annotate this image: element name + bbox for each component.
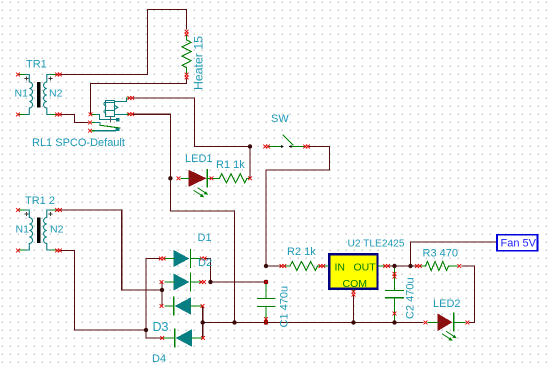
wire minus rail	[203, 322, 423, 324]
junction Fan 5V tap node	[408, 264, 412, 268]
pin marker D3 anode	[201, 304, 204, 307]
pin marker C2 top	[393, 272, 396, 278]
wire TR1 secondary bottom to relay NO contact	[59, 115, 88, 123]
junction C1 top node	[264, 280, 268, 284]
svg-text:N1: N1	[15, 88, 29, 100]
pin marker LED1 anode	[177, 177, 180, 180]
wire TR1 2 top to bridge AC2	[59, 210, 162, 290]
pin marker C2 bottom	[393, 312, 396, 315]
pin marker Heater bottom	[185, 73, 188, 79]
wire LED1 node down to minus rail	[170, 178, 234, 322]
svg-text:R1 1k: R1 1k	[216, 159, 245, 171]
svg-text:R3 470: R3 470	[423, 248, 458, 260]
wire R2 node to R2 left	[266, 265, 281, 267]
svg-text:D3: D3	[153, 320, 169, 334]
wire R1 right to SW node	[249, 147, 251, 179]
junction SW node	[248, 144, 252, 148]
svg-text:Fan 5V: Fan 5V	[501, 238, 537, 250]
junction U2 COM on minus rail	[351, 320, 355, 324]
pin names IN OUT COM of U2	[335, 262, 377, 291]
regulator U2 TLE2425	[329, 254, 377, 289]
svg-text:R2 1k: R2 1k	[287, 246, 316, 258]
wire D1 cathode to D2 node	[206, 259, 211, 283]
svg-text:IN: IN	[335, 262, 346, 274]
svg-text:RL1 SPCO-Default: RL1 SPCO-Default	[32, 137, 125, 149]
relay RL1 coil	[104, 98, 127, 117]
resistor R1 1k	[220, 174, 248, 183]
junction minus rail / LED1 return	[232, 320, 236, 324]
pin marker LED1 cathode / R1 left	[210, 177, 213, 180]
pin marker SW left	[264, 145, 270, 148]
pin marker R3 right	[458, 264, 461, 267]
pin marker U2 COM	[352, 290, 355, 296]
pin marker D1 cathode	[200, 257, 206, 260]
svg-text:N2: N2	[49, 88, 63, 100]
junction U2 OUT / C2 top node	[392, 264, 396, 268]
svg-text:LED1: LED1	[185, 153, 213, 165]
svg-text:TR1 2: TR1 2	[25, 195, 55, 207]
pin marker LED2 cathode	[466, 321, 469, 324]
pin marker C1 bottom	[264, 317, 267, 320]
wire R3 right to LED2 right	[462, 266, 475, 323]
switch SW	[269, 135, 305, 147]
svg-text:C1 470u: C1 470u	[279, 286, 291, 328]
svg-text:D4: D4	[152, 353, 166, 365]
junction LED1 anode node	[168, 176, 172, 180]
pin marker D3 cathode	[160, 304, 163, 307]
diode D1	[174, 250, 191, 267]
wire DC plus rail D2 to C1	[211, 281, 267, 283]
svg-text:TR1: TR1	[26, 59, 47, 71]
pin marker D4 cathode	[161, 336, 164, 339]
wire bridge AC2 vertical D2 to D3	[161, 283, 163, 305]
pin marker D2 cathode	[200, 280, 206, 283]
pin marker U2 OUT	[384, 264, 390, 267]
svg-text:COM: COM	[343, 278, 368, 290]
wire bridge AC1 left rail	[146, 259, 161, 339]
svg-text:D2: D2	[198, 257, 212, 269]
svg-text:N2: N2	[50, 224, 64, 236]
junction D3/D4 minus node	[201, 320, 205, 324]
resistor Heater 15	[182, 40, 191, 68]
pin marker TR1 2 N1 bottom	[16, 249, 19, 252]
relay RL1 pin stubs	[92, 98, 130, 131]
pin marker D4 anode	[201, 336, 204, 339]
pin marker TR1 N2 top	[56, 73, 62, 76]
junction C2 bottom on minus rail	[392, 320, 396, 324]
junction D1/D2 cathodes DC+ node	[208, 280, 212, 284]
wire U2 out to R3	[389, 265, 416, 267]
wire U2 COM to minus rail	[353, 296, 355, 323]
svg-text:OUT: OUT	[354, 262, 377, 274]
resistor R3 470	[426, 261, 449, 270]
pin marker C1 rail node	[264, 321, 267, 324]
wire SW right to R2 node	[266, 147, 330, 267]
wire relay coil pin2 to LED1 anode node	[133, 114, 171, 178]
capacitor C1 470u	[258, 284, 276, 322]
LED1	[189, 170, 208, 197]
pin marker R1 right	[248, 177, 251, 180]
svg-text:N1: N1	[16, 224, 30, 236]
LED2	[438, 314, 452, 331]
pin marker RL1 coil pin2	[128, 113, 134, 116]
pin marker D1 anode	[159, 257, 165, 260]
pin marker RL1 NC	[88, 129, 91, 132]
pin marker SW right	[304, 145, 310, 148]
wire Heater bottom to relay common	[91, 79, 187, 113]
wire relay coil pin1 to SW node	[133, 98, 251, 147]
wire TR1 secondary top to Heater top	[59, 10, 187, 75]
pin marker R2 left	[280, 264, 286, 267]
transformer TR1	[20, 75, 57, 115]
pin marker LED2 anode	[424, 321, 427, 324]
svg-text:SW: SW	[271, 113, 289, 125]
junction bridge AC2 node	[160, 288, 164, 292]
wire D3/D4 to minus rail	[202, 307, 204, 337]
pin marker RL1 common	[89, 113, 92, 116]
svg-text:C2 470u: C2 470u	[405, 277, 417, 319]
wire TR1 2 bottom to bridge AC1	[59, 251, 146, 331]
pin marker U2 IN	[319, 264, 325, 267]
svg-text:D1: D1	[198, 232, 212, 244]
pin marker TR1 N1 top	[16, 73, 19, 76]
junction C1 bottom on minus rail	[264, 320, 268, 324]
capacitor C2 470u	[386, 268, 403, 322]
pin marker TR1 2 N2 bottom	[56, 249, 62, 252]
relay RL1 armature and contacts	[97, 114, 117, 119]
transformer TR1 2	[20, 210, 57, 250]
pin marker TR1 N2 bottom	[56, 113, 62, 116]
pin marker C1 top node	[264, 280, 267, 283]
pin marker RL1 NO	[88, 121, 91, 124]
pin marker TR1 2 N1 top	[16, 208, 19, 211]
diode D3	[174, 297, 191, 314]
svg-text:U2 TLE2425: U2 TLE2425	[348, 239, 405, 250]
pin marker TR1 2 N2 top	[56, 208, 62, 211]
pin marker R3 left	[415, 264, 421, 267]
svg-text:LED2: LED2	[433, 298, 461, 310]
diode D2	[174, 273, 191, 290]
svg-text:Heater 15: Heater 15	[192, 36, 206, 90]
pin marker Heater top	[185, 30, 188, 36]
pin marker RL1 coil pin1	[128, 96, 134, 99]
resistor R2 1k	[290, 262, 318, 271]
junction R2 input node	[264, 264, 268, 268]
diode D4	[175, 329, 192, 346]
wire Fan 5V feed	[411, 242, 497, 266]
junction bridge AC1 node	[144, 328, 148, 332]
pin marker TR1 N1 bottom	[16, 113, 19, 116]
pin marker D2 anode	[160, 280, 163, 283]
net label Fan 5V	[497, 235, 538, 251]
